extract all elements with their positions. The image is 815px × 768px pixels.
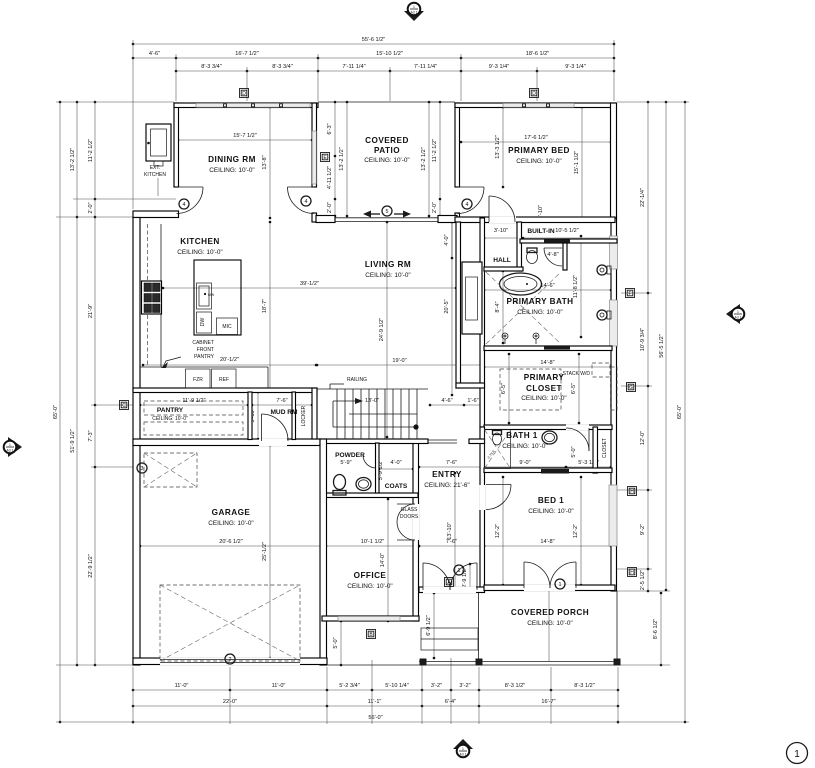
- kitchen island: [194, 260, 241, 335]
- window: bath bay upper: [610, 236, 618, 269]
- wall: dining east lower stub: [312, 213, 317, 222]
- dimension line: bed1 right 12'-2: [580, 477, 582, 585]
- svg-text:3'-2": 3'-2": [431, 683, 442, 689]
- door: dining east (4): [288, 186, 315, 188]
- svg-text:9'-3 1/4": 9'-3 1/4": [565, 64, 585, 70]
- porch slab edges: [478, 593, 480, 661]
- svg-text:39'-1/2": 39'-1/2": [300, 281, 319, 287]
- svg-text:1: 1: [413, 5, 415, 9]
- dimension line: bottom row2: [133, 705, 618, 707]
- svg-text:CEILING: 10'-0": CEILING: 10'-0": [516, 158, 561, 165]
- island microwave MIC: [217, 318, 238, 335]
- svg-text:D: D: [532, 91, 536, 97]
- svg-text:13'-3 1/2": 13'-3 1/2": [495, 135, 501, 159]
- hall east wall: [517, 222, 522, 271]
- svg-text:8'-3 1/2": 8'-3 1/2": [505, 683, 525, 689]
- svg-text:15'-10 1/2": 15'-10 1/2": [376, 51, 403, 57]
- wall: stairs south: [317, 439, 428, 444]
- svg-text:5'-9": 5'-9": [340, 460, 351, 466]
- bath1 door arc: [566, 428, 589, 451]
- dimension line: steps 6'-9 1/2: [433, 593, 435, 658]
- dimension line: living 19'-0: [317, 364, 482, 366]
- wall: bed1 south: [484, 585, 615, 591]
- wall: exterior right upper: [611, 103, 617, 218]
- dimension line: office 10'-1 1/2: [326, 545, 419, 547]
- svg-text:CEILING: 10'-0": CEILING: 10'-0": [177, 249, 222, 256]
- freezer FZR: [186, 369, 211, 388]
- svg-text:1: 1: [559, 582, 562, 588]
- door: dining west (4): [177, 186, 204, 188]
- wall: entry south: [419, 587, 485, 593]
- svg-text:2'-0": 2'-0": [88, 202, 94, 213]
- svg-text:4'-6": 4'-6": [441, 398, 452, 404]
- dimension line: pantry 11'-9 1/2: [140, 404, 248, 406]
- bath1 shower with X: [485, 430, 511, 469]
- svg-text:REF: REF: [219, 377, 229, 383]
- dimension line: left col2: [76, 102, 78, 665]
- door/window tag 4: bed west door: [462, 199, 472, 209]
- door/window tag 1: bed1 door: [555, 579, 565, 589]
- dimension line: closet 14'-8: [484, 366, 611, 368]
- svg-text:OFFICE: OFFICE: [354, 571, 387, 580]
- svg-text:BUILT-IN: BUILT-IN: [527, 228, 555, 235]
- porch centerline: [548, 591, 550, 661]
- svg-text:KITCHEN: KITCHEN: [144, 172, 166, 178]
- svg-text:G: G: [629, 385, 633, 391]
- island sink: [197, 283, 212, 309]
- svg-text:CEILING: 10'-0": CEILING: 10'-0": [364, 157, 409, 164]
- dimension line: bed 17'-6 1/2: [461, 141, 611, 143]
- dimension line: kitchen counter 20'-1/2: [143, 364, 316, 366]
- wall: entry west / office east: [413, 443, 419, 621]
- svg-text:14'-8": 14'-8": [540, 539, 554, 545]
- door/window tag 5: patio slider: [382, 206, 392, 216]
- bath1 vanity bar: [541, 469, 569, 474]
- bath wall sconce lower: [597, 310, 607, 320]
- svg-text:DOORS: DOORS: [400, 514, 419, 520]
- svg-text:3'-2": 3'-2": [459, 683, 470, 689]
- svg-text:20'-6 1/2": 20'-6 1/2": [219, 539, 243, 545]
- wall: kitchen north stub / dining sw corner: [133, 211, 179, 218]
- svg-text:BATH 1: BATH 1: [506, 431, 538, 440]
- marker D: top window left: [240, 89, 249, 98]
- dimension line: left 65': [59, 102, 61, 722]
- svg-text:C: C: [122, 403, 126, 409]
- svg-text:DW: DW: [200, 318, 206, 327]
- svg-text:1: 1: [458, 568, 461, 574]
- dimension line: bath1 5'-3 1/2: [566, 466, 611, 468]
- svg-text:11'-1": 11'-1": [368, 699, 382, 705]
- dimension line: bath 8'-4: [502, 271, 504, 343]
- door/window tag 1: entry door: [454, 565, 464, 575]
- dimension line: top row2: [133, 57, 614, 59]
- svg-text:11'-0": 11'-0": [272, 683, 286, 689]
- svg-text:2'-9 1/2": 2'-9 1/2": [462, 567, 468, 587]
- svg-text:1'-6": 1'-6": [467, 398, 478, 404]
- svg-text:8'-4": 8'-4": [495, 301, 501, 312]
- bath tile dashed diagonals: [486, 272, 561, 344]
- sliding door leaf lines: [335, 217, 438, 219]
- svg-text:COVERED: COVERED: [365, 136, 409, 145]
- window: dining north: [196, 103, 310, 107]
- dimension line: mud 5'-10: [257, 392, 259, 439]
- wall: garage south: [133, 658, 327, 665]
- marker B: office window: [367, 630, 376, 639]
- svg-text:8'-3 1/2": 8'-3 1/2": [574, 683, 594, 689]
- svg-text:12'-2": 12'-2": [573, 524, 579, 538]
- svg-text:CLOSET: CLOSET: [602, 438, 608, 458]
- marker C: pantry left: [120, 401, 129, 410]
- dimension line: bath 11'-8 1/2: [580, 236, 582, 337]
- svg-text:4: 4: [183, 202, 186, 208]
- opening: mud room door: [259, 439, 287, 447]
- wall: bath1 south / bed1 north: [484, 468, 612, 473]
- dimension line: builtin 10'-5 1/2: [523, 237, 611, 239]
- patio north edge line: [318, 101, 455, 103]
- dimension line: entry 7'-6: [419, 545, 484, 547]
- wall: pantry-mud divider: [248, 392, 252, 440]
- fridge REF: [212, 369, 237, 388]
- svg-text:20'-1/2": 20'-1/2": [220, 357, 239, 363]
- svg-text:6'-9 1/2": 6'-9 1/2": [426, 615, 432, 635]
- svg-text:CEILING: 10'-0": CEILING: 10'-0": [528, 508, 573, 515]
- kitchen upper cabinets dashed: [147, 224, 149, 367]
- svg-text:55'-6 1/2": 55'-6 1/2": [362, 37, 386, 43]
- svg-text:PRIMARY: PRIMARY: [524, 373, 565, 382]
- svg-text:4: 4: [305, 199, 308, 205]
- svg-text:13'-2 1/2": 13'-2 1/2": [339, 147, 345, 171]
- svg-text:10'-5 1/2": 10'-5 1/2": [555, 228, 579, 234]
- dimension line: patio col a: [334, 102, 336, 216]
- section marker: left elevation marker: [8, 437, 22, 457]
- svg-text:CABINET: CABINET: [192, 340, 214, 346]
- wall: dining east: [312, 103, 317, 187]
- svg-text:FZR: FZR: [193, 377, 203, 383]
- window: primary bed north: [503, 103, 574, 107]
- wall: living east: [456, 222, 461, 388]
- svg-text:4'-8": 4'-8": [547, 252, 558, 258]
- dimension line: left col3: [94, 102, 96, 665]
- dimension line: garage 25'-1/2: [269, 445, 271, 658]
- primary bath tub: [500, 273, 542, 295]
- dimension line: bed1 14'-8: [484, 545, 611, 547]
- dimension line: bed1 left 12'-2: [502, 477, 504, 585]
- svg-text:F: F: [628, 291, 631, 297]
- svg-text:6'-4": 6'-4": [445, 699, 456, 705]
- hall south wall: [484, 267, 523, 271]
- svg-text:6'-5": 6'-5": [501, 383, 507, 394]
- svg-text:9'-2": 9'-2": [640, 524, 646, 535]
- svg-text:COATS: COATS: [385, 483, 408, 490]
- entry double door arcs: [423, 563, 450, 590]
- wc toilet: [527, 251, 538, 264]
- svg-text:4'-0": 4'-0": [444, 234, 450, 245]
- svg-text:8'-3 3/4": 8'-3 3/4": [272, 64, 292, 70]
- svg-text:ENTRY: ENTRY: [432, 470, 462, 479]
- window: bed1 east: [609, 485, 617, 546]
- built-in wc right wall: [563, 243, 567, 270]
- door: primary bed west (4): [458, 186, 485, 188]
- ext kitchen unit: [146, 124, 171, 161]
- sheet number circle 1: [787, 743, 808, 764]
- svg-text:PANTRY: PANTRY: [194, 354, 214, 360]
- window: office south: [338, 616, 400, 620]
- stairs: [336, 389, 338, 439]
- svg-text:6'-5": 6'-5": [571, 383, 577, 394]
- wall: dining north with corner: [174, 103, 318, 108]
- wall: exterior right mid+lower: [611, 218, 617, 591]
- dimension line: entry top 7'-6: [419, 466, 484, 468]
- dimension line: kitchen 18'-7: [269, 222, 271, 390]
- vanity mirror bar: [544, 345, 570, 349]
- marker E: patio left: [321, 153, 330, 162]
- svg-text:POWDER: POWDER: [335, 452, 365, 459]
- svg-text:H: H: [630, 489, 634, 495]
- marker H: right bed1 upper: [628, 487, 637, 496]
- svg-text:65'-0": 65'-0": [677, 405, 683, 419]
- svg-text:25'-1/2": 25'-1/2": [262, 542, 268, 561]
- door/window tag 4: dining west door: [179, 199, 189, 209]
- svg-text:7'-6": 7'-6": [446, 460, 457, 466]
- dimension line: entry 13'-10: [454, 473, 456, 589]
- svg-text:5: 5: [386, 209, 389, 215]
- bath1 vanity sink: [542, 431, 557, 444]
- bath1 toilet: [493, 433, 502, 445]
- bath floor drains: [502, 333, 508, 339]
- dimension line: kitchen-living 39'-1/2: [163, 287, 456, 289]
- dimension line: office 14'-0: [387, 499, 389, 621]
- svg-text:STACK W/D: STACK W/D: [563, 371, 591, 377]
- entry steps: [421, 628, 478, 650]
- svg-text:A3.1: A3.1: [735, 316, 742, 320]
- wall: primary bath south / closet north: [484, 346, 612, 351]
- svg-text:11'-2 1/2": 11'-2 1/2": [88, 139, 94, 162]
- dimension line: right 65': [684, 102, 686, 722]
- svg-text:16'-7": 16'-7": [541, 699, 555, 705]
- svg-text:CEILING: 10'-0": CEILING: 10'-0": [208, 520, 253, 527]
- marker D: top window right: [530, 89, 539, 98]
- stairs direction arrow: [333, 401, 416, 427]
- svg-text:1: 1: [737, 310, 739, 314]
- dimension line: living 4'-0: [451, 222, 453, 258]
- svg-text:PANTRY: PANTRY: [157, 407, 184, 414]
- section marker: bottom elevation marker: [453, 739, 473, 749]
- svg-text:4: 4: [466, 202, 469, 208]
- svg-text:51'-9 1/2": 51'-9 1/2": [70, 429, 76, 453]
- porch posts: [420, 659, 427, 666]
- svg-text:7'-3": 7'-3": [88, 430, 94, 441]
- extension lines from top dims: [132, 40, 134, 209]
- dimension line: bottom 56'-0: [133, 721, 618, 723]
- svg-text:PRIMARY BATH: PRIMARY BATH: [506, 297, 573, 306]
- svg-text:12'-2": 12'-2": [495, 524, 501, 538]
- wall: office south: [322, 616, 419, 621]
- wall: primary bed west: [455, 103, 460, 187]
- marker A: entry door: [445, 578, 454, 587]
- opening: bed1 double door: [524, 585, 575, 592]
- dimension line: patio col b: [346, 102, 348, 216]
- wall: bed1 west / entry east: [480, 427, 485, 591]
- kitchen south counter: [140, 366, 268, 368]
- marker G: right closet: [627, 383, 636, 392]
- svg-text:14'-8": 14'-8": [540, 360, 554, 366]
- svg-text:1: 1: [794, 749, 800, 760]
- dimension line: right col2: [665, 102, 667, 590]
- svg-text:4'-11 1/2": 4'-11 1/2": [327, 166, 333, 189]
- svg-text:8'-3 3/4": 8'-3 3/4": [201, 64, 221, 70]
- svg-text:5'-2 3/4": 5'-2 3/4": [339, 683, 359, 689]
- built-in wc top wall: [520, 239, 567, 243]
- door/window tag 4: dining east door: [301, 196, 311, 206]
- svg-text:GARAGE: GARAGE: [212, 508, 251, 517]
- svg-text:MW: MW: [208, 293, 215, 297]
- dimension line: dining 15'-7 1/2: [178, 139, 312, 141]
- svg-text:12'-0": 12'-0": [640, 431, 646, 445]
- dimension line: bed 15'-1 1/2: [581, 107, 583, 218]
- svg-text:CEILING: 21'-6": CEILING: 21'-6": [424, 482, 469, 489]
- dimension line: right col1: [647, 102, 649, 591]
- powder sink: [356, 478, 371, 491]
- wall: pantry/mud north: [133, 388, 317, 393]
- svg-text:14'-0": 14'-0": [380, 553, 386, 567]
- svg-text:RAILING: RAILING: [347, 377, 367, 383]
- svg-text:1: 1: [9, 443, 11, 447]
- dimension line: top 55'-6 1/2: [133, 43, 614, 45]
- svg-text:MIC: MIC: [222, 324, 232, 330]
- svg-text:PRIMARY BED: PRIMARY BED: [508, 146, 570, 155]
- svg-text:11'-2 1/2": 11'-2 1/2": [432, 139, 438, 162]
- svg-text:GLASS: GLASS: [401, 507, 418, 513]
- svg-text:13'-10": 13'-10": [447, 522, 453, 539]
- dimension line: right porch 8'-6 1/2: [660, 593, 662, 665]
- bed1 entry door arc: [486, 484, 511, 486]
- svg-text:DINING RM: DINING RM: [208, 155, 256, 164]
- svg-text:A3.1: A3.1: [411, 11, 418, 15]
- svg-text:7'-11 1/4": 7'-11 1/4": [342, 64, 365, 70]
- door: bed hall door arc: [488, 196, 490, 222]
- svg-text:2'-5 1/2": 2'-5 1/2": [640, 570, 646, 590]
- dimension line: garage 20'-6 1/2: [140, 545, 322, 547]
- railing at stair void: [428, 439, 457, 441]
- dimension line: living 20'-5: [451, 218, 453, 395]
- door/window tag 3: garage side door: [137, 463, 147, 473]
- svg-text:7'-6": 7'-6": [276, 398, 287, 404]
- svg-text:D: D: [242, 91, 246, 97]
- svg-text:56'-0": 56'-0": [368, 715, 382, 721]
- svg-text:5'-10 1/4": 5'-10 1/4": [385, 683, 409, 689]
- svg-text:H: H: [630, 570, 634, 576]
- svg-text:CLOSET: CLOSET: [526, 384, 562, 393]
- island dishwasher DW: [197, 312, 212, 333]
- powder door arc: [363, 455, 376, 468]
- wall: closet south / bath1 north: [484, 425, 612, 430]
- svg-text:EXT.: EXT.: [150, 165, 161, 171]
- wall: garage east: [320, 439, 327, 665]
- svg-text:5'-0": 5'-0": [571, 446, 577, 457]
- svg-text:1: 1: [462, 747, 464, 751]
- svg-text:8'-6 1/2": 8'-6 1/2": [653, 619, 659, 639]
- dimension line: closet left: [508, 354, 510, 423]
- svg-text:11'-0": 11'-0": [175, 683, 189, 689]
- svg-text:CEILING: 10'-0": CEILING: 10'-0": [502, 443, 547, 450]
- svg-text:10'-9 3/4": 10'-9 3/4": [640, 328, 646, 352]
- svg-text:FRONT: FRONT: [197, 347, 214, 353]
- wall: garage north: [133, 439, 320, 446]
- wall: exterior left: [133, 218, 140, 666]
- svg-text:11'-8 1/2": 11'-8 1/2": [573, 275, 579, 298]
- svg-text:BED 1: BED 1: [538, 496, 564, 505]
- office glass door arcs: [397, 504, 415, 522]
- bath wall sconce upper: [597, 265, 607, 275]
- wc door arc: [544, 248, 562, 266]
- svg-text:CEILING: 10'-0": CEILING: 10'-0": [521, 395, 566, 402]
- svg-text:LIVING RM: LIVING RM: [365, 260, 411, 269]
- wall: coats south: [322, 493, 418, 498]
- wall: locker east / stairs west: [312, 388, 317, 439]
- wall: primary bed south: [455, 217, 615, 223]
- dimension line: living 24'-9 1/2: [386, 222, 388, 437]
- dimension line: bottom row1: [133, 689, 618, 691]
- opening: garage door: [160, 658, 300, 666]
- window: dining east: [312, 131, 316, 184]
- svg-text:CEILING: 10'-0": CEILING: 10'-0": [527, 620, 572, 627]
- opening: office glass doors: [413, 504, 420, 540]
- svg-text:LOCKER: LOCKER: [301, 405, 307, 426]
- dimension line: patio col d: [439, 102, 441, 216]
- svg-text:9'-3 1/4": 9'-3 1/4": [489, 64, 509, 70]
- svg-text:A3.1: A3.1: [460, 753, 467, 757]
- svg-text:3: 3: [141, 466, 144, 472]
- mud door arc: [261, 414, 263, 441]
- svg-text:4'-6": 4'-6": [149, 51, 160, 57]
- garage storage dashed X box: [144, 453, 197, 487]
- pantry shelves dashed: [144, 401, 243, 415]
- window: closet dashed: [611, 367, 618, 410]
- svg-text:3'-10": 3'-10": [494, 228, 508, 234]
- svg-text:COVERED PORCH: COVERED PORCH: [511, 608, 589, 617]
- svg-text:5'-0": 5'-0": [333, 637, 339, 648]
- svg-text:CEILING: 10'-0": CEILING: 10'-0": [152, 416, 188, 422]
- svg-text:17'-6 1/2": 17'-6 1/2": [524, 135, 548, 141]
- dimension line: closet right: [578, 354, 580, 423]
- door/window tag 2: garage door: [225, 654, 235, 664]
- opening: bed1 entry door: [480, 485, 486, 510]
- dimension line: office-south 5'-0: [340, 621, 342, 665]
- svg-text:13'-8": 13'-8": [262, 155, 268, 169]
- wall: dining west: [174, 103, 179, 187]
- svg-text:9'-0": 9'-0": [519, 460, 530, 466]
- dimension line: dining 13'-8: [269, 107, 271, 218]
- section marker: north/top elevation marker: [404, 11, 424, 21]
- wall: bath1/closet divider: [593, 427, 598, 473]
- svg-text:19'-0": 19'-0": [392, 358, 406, 364]
- svg-text:6'-3": 6'-3": [327, 123, 333, 134]
- marker H: right bed1 lower: [628, 568, 637, 577]
- dimension line: bath 14'-6: [484, 289, 611, 291]
- svg-text:HALL: HALL: [493, 257, 511, 264]
- svg-text:15'-1 1/2": 15'-1 1/2": [574, 151, 580, 175]
- svg-text:CEILING: 10'-0": CEILING: 10'-0": [365, 272, 410, 279]
- marker F: right bath window: [626, 289, 635, 298]
- wall: primary bed north: [455, 103, 615, 108]
- svg-text:20'-5": 20'-5": [444, 299, 450, 313]
- svg-text:22'-9 1/2": 22'-9 1/2": [88, 554, 94, 578]
- opening: bath1 entry: [566, 425, 589, 431]
- dimension line: patio col c: [428, 102, 430, 216]
- sliding door direction arrows: [370, 213, 380, 215]
- wall: mud-locker divider: [292, 392, 296, 440]
- svg-text:7'-11 1/4": 7'-11 1/4": [414, 64, 437, 70]
